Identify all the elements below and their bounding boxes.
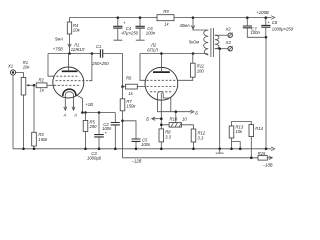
svg-text:C1: C1 xyxy=(96,44,101,49)
svg-text:47µ×250: 47µ×250 xyxy=(122,30,139,35)
svg-text:1000µ6: 1000µ6 xyxy=(87,156,102,161)
svg-text:150к: 150к xyxy=(38,137,48,142)
svg-text:R6: R6 xyxy=(126,76,132,81)
svg-text:6П1Л: 6П1Л xyxy=(147,47,158,52)
svg-text:R10: R10 xyxy=(170,116,178,121)
svg-text:Б: Б xyxy=(195,110,198,115)
svg-text:−12В: −12В xyxy=(132,158,142,163)
svg-text:100n: 100n xyxy=(102,126,112,131)
svg-text:3.3: 3.3 xyxy=(165,135,171,140)
svg-text:Х3: Х3 xyxy=(225,40,232,45)
svg-text:C8: C8 xyxy=(272,20,278,25)
svg-text:3.3: 3.3 xyxy=(198,136,204,141)
svg-text:R9: R9 xyxy=(163,9,169,14)
svg-text:−18В: −18В xyxy=(263,162,273,167)
svg-text:5кОм: 5кОм xyxy=(189,40,200,45)
svg-text:20к: 20к xyxy=(72,28,81,33)
svg-text:+200В: +200В xyxy=(257,10,269,15)
svg-text:40мА: 40мА xyxy=(180,23,191,28)
svg-text:+1В: +1В xyxy=(85,102,93,107)
svg-text:250×250: 250×250 xyxy=(91,61,109,66)
svg-text:А: А xyxy=(73,112,77,117)
svg-text:100n: 100n xyxy=(251,30,261,35)
svg-text:R2: R2 xyxy=(39,78,45,83)
svg-text:150к: 150к xyxy=(126,104,136,109)
svg-text:100n: 100n xyxy=(146,30,156,35)
svg-text:X1: X1 xyxy=(7,64,13,69)
svg-text:Б: Б xyxy=(146,117,149,122)
svg-text:100: 100 xyxy=(197,69,205,74)
svg-text:5мА: 5мА xyxy=(55,36,63,41)
svg-text:R15: R15 xyxy=(258,151,266,156)
svg-text:+75В: +75В xyxy=(53,46,63,51)
svg-text:12Ж1Л: 12Ж1Л xyxy=(71,47,85,52)
svg-text:1000µ×250: 1000µ×250 xyxy=(272,26,294,31)
svg-text:10к: 10к xyxy=(236,129,244,134)
svg-text:10: 10 xyxy=(182,116,187,121)
svg-text:100n: 100n xyxy=(141,142,151,147)
svg-text:R14: R14 xyxy=(255,126,263,131)
svg-text:10к: 10к xyxy=(23,65,31,70)
svg-text:Х2: Х2 xyxy=(225,27,232,32)
svg-text:290: 290 xyxy=(89,124,98,129)
svg-text:А: А xyxy=(63,112,67,117)
